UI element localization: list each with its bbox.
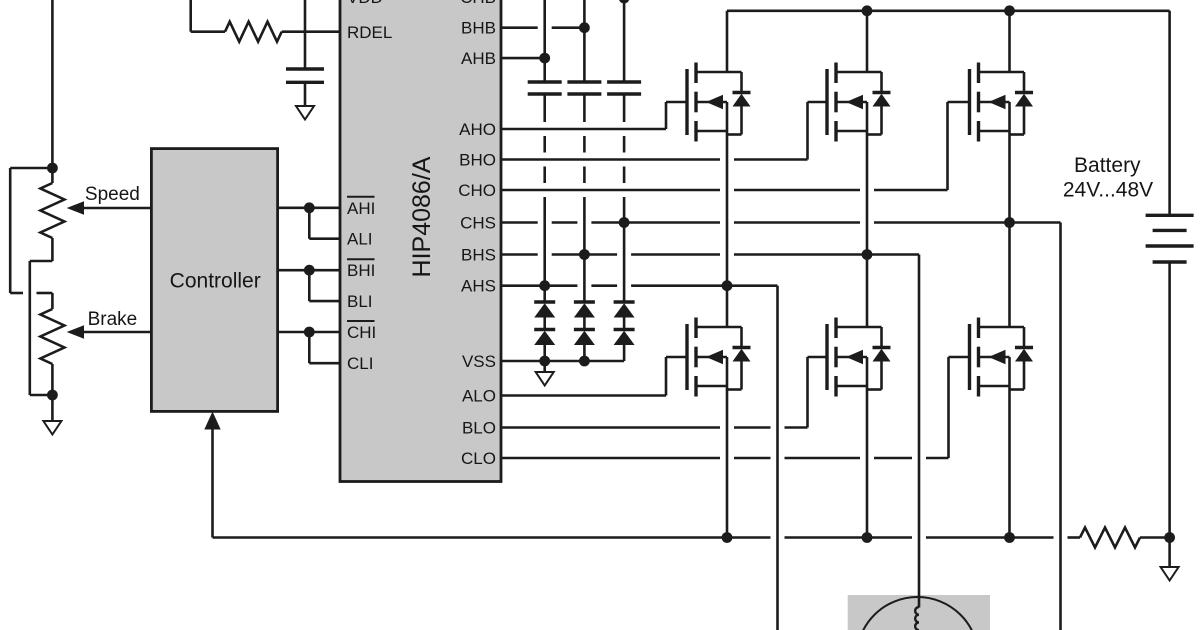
wire diode to VSS line: [623, 345, 626, 361]
wire speed bottom down to ground node: [28, 261, 31, 395]
diode DA1: [534, 300, 555, 303]
overbar for CHI: [347, 320, 375, 322]
ground battery return: [1168, 538, 1171, 568]
battery BT1: [1146, 215, 1194, 262]
svg-text:AHS: AHS: [461, 277, 496, 296]
wire junction down to BLI pin: [308, 270, 311, 301]
svg-text:CHO: CHO: [458, 181, 496, 200]
wire positive battery rail: [727, 10, 1170, 13]
wire CLO to Q6 gate (hops at Q4 source, motor A, Q5 source, motor B): [501, 457, 720, 460]
svg-text:BHB: BHB: [461, 19, 496, 38]
diode DB2: [574, 328, 595, 331]
arrow speed wiper: [67, 201, 84, 214]
svg-text:BHO: BHO: [459, 151, 496, 170]
wire between diodes: [623, 318, 626, 330]
svg-text:CLI: CLI: [347, 354, 373, 373]
wire between diodes: [543, 318, 546, 330]
wire VDD line down to cap: [304, 0, 307, 69]
wire BHB pin to junction (hop over first vertical): [501, 26, 538, 29]
resistor RDEL: [225, 22, 282, 42]
wire bootstrap vertical A lower (hops over AHO BHO CHO): [543, 94, 546, 122]
wire resistor to RDEL pin: [282, 30, 340, 33]
wire VSS pin to diode strings: [501, 360, 624, 363]
wire junction to left rail: [10, 167, 52, 170]
wire jog to ground junction: [30, 394, 53, 397]
node rail Q5 source junction: [862, 532, 873, 543]
node speed pot top junction: [47, 163, 58, 174]
capacitor CC bootstrap: [607, 80, 641, 83]
diode DC1: [614, 300, 635, 303]
node BHB junction: [579, 22, 590, 33]
svg-text:Controller: Controller: [170, 270, 261, 293]
ground RDEL cap: [296, 106, 314, 120]
wire speed wiper to controller: [82, 207, 151, 210]
node VSS diode B junction: [579, 356, 590, 367]
motor winding coil: [915, 607, 919, 630]
wire bottom sense rail (hops at motor phase lines): [213, 536, 771, 539]
node CHS bootstrap junction: [619, 217, 630, 228]
wire bootstrap vertical B upper: [583, 0, 586, 82]
arrow brake wiper: [67, 325, 84, 338]
wire brake pot top lead: [51, 293, 54, 309]
wire top feed to speed pot: [51, 0, 54, 183]
resistor R3 current sense: [1080, 528, 1140, 548]
node VSS diode A junction: [539, 356, 550, 367]
svg-text:AHO: AHO: [459, 120, 496, 139]
node BHI/BLI junction: [304, 265, 315, 276]
wire speed bottom jog left: [30, 260, 53, 263]
wire CHO to Q3 gate (hops at phase A and B): [501, 189, 720, 192]
svg-text:Battery: Battery: [1074, 154, 1141, 177]
svg-text:Brake: Brake: [88, 309, 138, 330]
diode DA2: [534, 328, 555, 331]
svg-text:CHI: CHI: [347, 323, 376, 342]
overbar for AHI: [347, 196, 375, 198]
wire controller to BHI pin: [278, 269, 340, 272]
node AHB junction: [539, 53, 550, 64]
wire phase A node (high source to low drain): [726, 135, 729, 328]
wire rail to battery positive: [1168, 11, 1171, 216]
node rail phase B junction: [862, 5, 873, 16]
ground pot divider: [51, 395, 54, 421]
node AHS phase A junction: [722, 280, 733, 291]
transistor Q2 high side phase B: [827, 63, 891, 142]
transistor Q5 low side phase B: [827, 318, 891, 397]
node rail phase C junction: [1004, 5, 1015, 16]
node rail Q4 source junction: [722, 532, 733, 543]
wire phase C node (high source to low drain): [1008, 135, 1011, 328]
svg-text:VDD: VDD: [347, 0, 383, 7]
wire low source to bottom rail phase A: [726, 390, 729, 538]
wire battery negative down: [1168, 262, 1171, 538]
wire diode to VSS line: [543, 345, 546, 361]
capacitor CB bootstrap: [567, 80, 601, 83]
potentiometer R2 Brake: [40, 309, 64, 364]
potentiometer R1 Speed: [40, 183, 64, 238]
node battery negative junction: [1164, 532, 1175, 543]
wire controller to CHI pin: [278, 331, 340, 334]
ground VSS: [543, 361, 546, 372]
capacitor CA bootstrap: [528, 80, 562, 83]
IC U1 HIP4086/A body: [340, 0, 501, 482]
wire rail to Q high drain phase C: [1008, 11, 1011, 72]
node BHS phase B junction: [862, 249, 873, 260]
svg-text:VSS: VSS: [462, 352, 496, 371]
node rail Q6 source junction: [1004, 532, 1015, 543]
wire brake pot bottom lead: [51, 364, 54, 395]
svg-text:CHS: CHS: [460, 214, 496, 233]
node CHS phase C junction: [1004, 217, 1015, 228]
wire BHO to Q2 gate (hop at phase A): [501, 158, 720, 161]
wire current sense feedback to controller: [211, 429, 214, 538]
wire bootstrap vertical B lower (hops over AHO BHO CHO): [583, 94, 586, 122]
wire AHS (dot v1, hop v2 v3, dot phase A): [501, 284, 577, 287]
wire junction down to CLI pin: [308, 332, 311, 363]
controller block: [151, 149, 277, 412]
node CHI/CLI junction: [304, 327, 315, 338]
node pot ground junction: [47, 390, 58, 401]
wire bootstrap vertical C upper: [623, 0, 626, 82]
node BHS bootstrap junction: [579, 249, 590, 260]
wire AHB pin to junction: [501, 57, 545, 60]
node AHS bootstrap junction: [539, 280, 550, 291]
wire sense resistor to battery return: [1140, 536, 1170, 539]
motor M1 housing: [848, 595, 990, 630]
svg-text:HIP4086/A: HIP4086/A: [408, 156, 436, 277]
wire phase B inside motor: [918, 595, 921, 608]
svg-text:Speed: Speed: [85, 184, 140, 205]
wire brake wiper to controller: [82, 331, 151, 334]
wire low source to bottom rail phase C: [1008, 390, 1011, 538]
node AHI/ALI junction: [304, 202, 315, 213]
wire rail to Q high drain phase A: [726, 11, 729, 72]
wire BLO to Q5 gate (hops at Q4 source and motor A): [501, 426, 720, 429]
wire ALO to Q4 gate: [501, 394, 666, 397]
svg-text:AHI: AHI: [347, 199, 375, 218]
wire left rail down: [9, 168, 12, 293]
diode DB1: [574, 300, 595, 303]
wire to resistor RDEL: [191, 30, 225, 33]
wire VDD branch down: [189, 0, 192, 32]
wire motor phase C down: [1059, 223, 1062, 630]
wire between diodes: [583, 318, 586, 330]
wire phase B node (high source to low drain): [866, 135, 869, 328]
wire junction down to ALI pin: [308, 208, 311, 239]
wire bootstrap vertical C lower (hops over AHO BHO CHO): [623, 94, 626, 122]
wire CHS (hops v1 v2, dot v3, hops phase A B, dot phase C): [501, 221, 538, 224]
svg-text:CHB: CHB: [460, 0, 496, 7]
svg-text:BHI: BHI: [347, 261, 375, 280]
transistor Q6 low side phase C: [970, 318, 1034, 397]
wire low source to bottom rail phase B: [866, 390, 869, 538]
wire AHO to Q1 gate: [501, 128, 666, 131]
wire left rail to brake pot top (hop over crossing): [10, 292, 23, 295]
wire controller to AHI pin: [278, 207, 340, 210]
node CHB junction: [619, 0, 630, 3]
transistor Q4 low side phase A: [687, 318, 751, 397]
wire motor phase B down: [918, 255, 921, 608]
wire speed pot bottom lead: [51, 238, 54, 261]
svg-text:BHS: BHS: [461, 246, 496, 265]
transistor Q3 high side phase C: [970, 63, 1034, 142]
svg-text:AHB: AHB: [461, 49, 496, 68]
transistor Q1 high side phase A: [687, 63, 751, 142]
svg-text:CLO: CLO: [461, 449, 496, 468]
wire diode to VSS line: [583, 345, 586, 361]
arrow feedback into controller: [204, 412, 220, 430]
overbar for BHI: [347, 258, 375, 260]
svg-text:BLI: BLI: [347, 292, 373, 311]
svg-text:ALO: ALO: [462, 387, 496, 406]
wire motor phase A down: [776, 286, 779, 630]
motor M1 body circle: [857, 597, 979, 630]
svg-text:BLO: BLO: [462, 419, 496, 438]
svg-text:ALI: ALI: [347, 230, 373, 249]
capacitor C1 (RDEL): [286, 67, 324, 70]
wire BHS (hop v1, dot v2, hop v3, hop phase A, dot phase B): [501, 253, 538, 256]
svg-text:24V...48V: 24V...48V: [1063, 179, 1153, 202]
diode DC2: [614, 328, 635, 331]
wire rail to Q high drain phase B: [866, 11, 869, 72]
wire cap to ground: [304, 82, 307, 106]
svg-text:RDEL: RDEL: [347, 23, 392, 42]
wire bootstrap vertical A upper: [543, 0, 546, 82]
